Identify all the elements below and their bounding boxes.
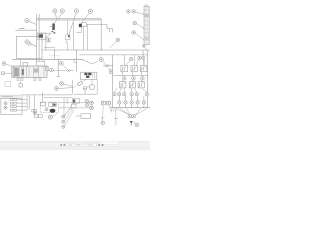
dashed enclosure bbox=[40, 102, 58, 113]
wire x67.5 drop bbox=[67, 43, 69, 50]
wire top bus bbox=[37, 18, 102, 20]
junction tick bbox=[41, 92, 43, 102]
wire drop x54.4 bbox=[53, 50, 55, 59]
relay dark 1 bbox=[84, 73, 87, 75]
title divider bbox=[1, 97, 22, 99]
zoom pill bbox=[101, 141, 119, 144]
valve row 2 bbox=[120, 72, 145, 88]
balloon dots top-left bbox=[26, 20, 28, 43]
balloon 62 bbox=[60, 9, 64, 13]
relay box right bbox=[72, 99, 79, 103]
breather 4 bbox=[136, 96, 140, 108]
wire strip to bus bbox=[145, 47, 147, 50]
dividers bbox=[19, 66, 44, 77]
circle gauge bbox=[83, 87, 87, 91]
circled terminals bbox=[4, 102, 7, 105]
left box bbox=[41, 102, 46, 106]
balloon 55 bbox=[53, 9, 57, 13]
cylinder strip bbox=[144, 7, 149, 45]
circled numbers row 1 bbox=[122, 77, 144, 81]
wire y33.2 bbox=[37, 32, 51, 34]
mini component 2 bbox=[66, 20, 71, 43]
small box bbox=[81, 114, 91, 119]
balloon 76 bbox=[74, 9, 78, 13]
wire drop x101 bbox=[100, 19, 102, 50]
balloon 61.5,83.5 bbox=[60, 82, 64, 86]
toolbar lower zone bbox=[0, 147, 150, 150]
title strip fill bbox=[1, 95, 22, 98]
small fittings below bbox=[17, 78, 19, 80]
breather 1 bbox=[118, 96, 122, 108]
square balloon below band bbox=[19, 84, 22, 87]
wires below bbox=[74, 23, 88, 50]
top port rect bbox=[23, 62, 28, 66]
port circles row bbox=[113, 88, 149, 96]
wire y94.2 bbox=[74, 93, 97, 95]
row leaders bbox=[17, 100, 28, 111]
balloon 101,59.5 bbox=[99, 58, 103, 62]
breather 5 bbox=[142, 96, 146, 108]
right riser block bbox=[37, 61, 45, 66]
wire vertical x76.5 bbox=[76, 50, 78, 72]
L-wire bbox=[74, 59, 77, 63]
wire top bus 2 bbox=[37, 19, 102, 21]
enclosure box top-left bbox=[16, 36, 42, 58]
fan leaders bbox=[65, 106, 72, 116]
wire mid bus y50 bbox=[42, 49, 150, 51]
wire y30 bbox=[16, 29, 37, 31]
manifold left rail bbox=[112, 55, 114, 108]
balloon 51.5,70 bbox=[50, 68, 54, 72]
drain glyph bbox=[130, 121, 133, 125]
relay contact boxes bottom-left bbox=[32, 109, 42, 117]
dark piston bbox=[14, 68, 19, 77]
center box bbox=[80, 72, 97, 79]
page field bbox=[67, 143, 76, 146]
manifold bottom rail bbox=[110, 107, 150, 109]
field 2 bbox=[87, 143, 97, 146]
valve component dark B bbox=[37, 33, 45, 39]
X-valve center bbox=[67, 69, 73, 72]
valve component dark A bbox=[37, 24, 56, 41]
wire mid bus y55 bbox=[79, 54, 147, 56]
gauge circle bbox=[101, 121, 105, 125]
relay dark 3 bbox=[86, 76, 89, 78]
valve body small rects bbox=[49, 103, 52, 107]
wire staircase right bbox=[87, 24, 113, 32]
balloon 50.3,117.1 bbox=[48, 115, 52, 119]
right attachment bbox=[46, 67, 49, 71]
vertical collector bbox=[26, 96, 28, 111]
cylinder assembly body bbox=[13, 66, 47, 77]
second wire y97.6 bbox=[44, 98, 72, 115]
left hatch marks bbox=[111, 108, 118, 125]
circled number bbox=[45, 108, 48, 111]
funnel balloons bbox=[128, 114, 136, 118]
wire y47.6 short bbox=[44, 47, 55, 49]
strip connector bbox=[143, 44, 146, 47]
actuator arrows row 2 bbox=[120, 82, 144, 87]
title dashes bbox=[2, 96, 13, 98]
breather 2 bbox=[124, 96, 128, 108]
relay dark 2 bbox=[88, 73, 91, 75]
icon 3 bbox=[98, 144, 100, 146]
end cap bbox=[12, 67, 14, 78]
band drops bbox=[21, 59, 44, 66]
terminal box bbox=[1, 95, 22, 114]
mini component pair 1 bbox=[47, 38, 50, 42]
wires to right circles bbox=[58, 102, 89, 104]
cylinder strip cap bbox=[145, 5, 148, 7]
balloon left edge bbox=[2, 62, 6, 66]
sub box below bbox=[90, 85, 94, 89]
wire long y59.3 bbox=[12, 58, 83, 60]
wire vertical x45.9 bbox=[45, 34, 47, 50]
small box below bbox=[71, 104, 76, 108]
funnel collector bbox=[116, 108, 147, 115]
leader lines from top balloons bbox=[55, 13, 56, 19]
right circles quartet bbox=[85, 99, 88, 102]
balloon 61.3,63.3 bbox=[59, 61, 63, 65]
mid balloons and X-valve bbox=[50, 59, 77, 72]
nav icon 2 bbox=[64, 144, 66, 146]
junction bbox=[41, 33, 42, 34]
wire x72.5 drop bbox=[72, 80, 74, 94]
manifold right rail bbox=[147, 50, 149, 108]
valve X glyph bbox=[103, 64, 113, 67]
manifold mid rail bbox=[113, 75, 148, 77]
leader bbox=[29, 21, 37, 24]
toolbar inner line bbox=[0, 146, 150, 149]
wire vertical x58.2 probe bbox=[56, 59, 60, 76]
dark oval solenoid bbox=[50, 109, 56, 113]
wire x143 link bbox=[142, 50, 144, 55]
wire top y94.9 bbox=[22, 94, 72, 96]
nav icon 1 bbox=[61, 144, 63, 146]
wire x97.2 drop bbox=[96, 79, 98, 94]
balloons right strip bbox=[116, 10, 136, 42]
label dash bbox=[19, 28, 25, 30]
square balloon pair bbox=[101, 101, 105, 105]
balloon 90 bbox=[88, 9, 92, 13]
dark blob component bbox=[79, 24, 82, 27]
valve row 1 bbox=[121, 55, 147, 72]
balloon bottom right bbox=[135, 123, 139, 127]
component box top-center bbox=[74, 23, 88, 50]
valve row 1 balloons bbox=[126, 56, 145, 65]
leaders to strip bbox=[135, 12, 144, 15]
square balloon left bbox=[1, 72, 4, 75]
breather 3 bbox=[130, 96, 134, 108]
stacked small circles bbox=[62, 115, 65, 118]
toolbar background bbox=[0, 142, 150, 150]
gray block bbox=[34, 68, 39, 72]
separator marks bbox=[77, 144, 80, 145]
dark seal bbox=[22, 69, 24, 75]
balloon 111,71.7 bbox=[109, 70, 113, 74]
zigzag wire bbox=[82, 60, 97, 64]
terminal pairs rows bbox=[10, 99, 13, 101]
breather symbols row bbox=[118, 96, 146, 108]
dotted texture bbox=[49, 55, 60, 57]
toolbar top border bbox=[0, 141, 150, 144]
balloon 27,20 bbox=[25, 19, 29, 23]
actuator arrows row 1 bbox=[121, 66, 146, 71]
wire vertical x39.1 bbox=[38, 14, 40, 61]
valve V2 bbox=[77, 81, 82, 86]
diagonal wire bbox=[43, 33, 51, 40]
leader bbox=[29, 43, 36, 46]
balloon 27,42 bbox=[25, 40, 29, 44]
junction dots bbox=[54, 49, 102, 59]
faint box lower-left bbox=[5, 82, 11, 87]
balloon 56.4,88.4 bbox=[55, 87, 59, 91]
icon 4 bbox=[102, 144, 104, 146]
wire vertical x36.5 bbox=[36, 14, 38, 62]
